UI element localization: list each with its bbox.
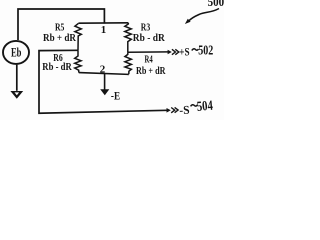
svg-text:Rb + dR: Rb + dR (43, 33, 77, 44)
tilde 502 (192, 49, 199, 51)
svg-text:Rb - dR: Rb - dR (42, 62, 72, 73)
wire: +S output (128, 51, 168, 53)
svg-text:-S: -S (179, 103, 190, 118)
wire: battery top to bridge top feed (18, 9, 104, 40)
ground arrow below battery (10, 91, 23, 99)
svg-text:504: 504 (196, 99, 213, 115)
wire: node 2 to -E (104, 74, 106, 90)
leader curve for 500 (189, 9, 220, 22)
-S arrowhead (167, 108, 171, 113)
svg-text:Rb + dR: Rb + dR (136, 66, 166, 77)
svg-text:502: 502 (198, 44, 213, 59)
svg-text:Eb: Eb (11, 45, 22, 59)
svg-text:1: 1 (101, 24, 107, 36)
bridge top edge (78, 22, 128, 24)
wire: left mid tap around to -S (39, 50, 167, 113)
resistor R6 (75, 50, 81, 72)
svg-text:2: 2 (100, 63, 106, 75)
resistor R4 (125, 52, 131, 74)
tilde 504 (191, 105, 198, 107)
bridge bottom edge (79, 73, 129, 75)
wire: battery bottom (16, 65, 18, 91)
svg-text:R4: R4 (145, 55, 153, 66)
svg-text:-E: -E (111, 89, 120, 103)
+S break chevrons (172, 49, 176, 54)
resistor R3 (125, 23, 132, 52)
battery Eb (3, 41, 29, 64)
+S arrowhead (168, 50, 172, 55)
resistor R5 (75, 23, 81, 50)
-S break chevrons (171, 108, 175, 113)
svg-text:Rb - dR: Rb - dR (133, 33, 166, 44)
svg-text:500: 500 (208, 0, 224, 9)
svg-text:+S: +S (179, 45, 190, 59)
-E arrow (100, 89, 109, 95)
leader arrowhead (185, 19, 191, 24)
